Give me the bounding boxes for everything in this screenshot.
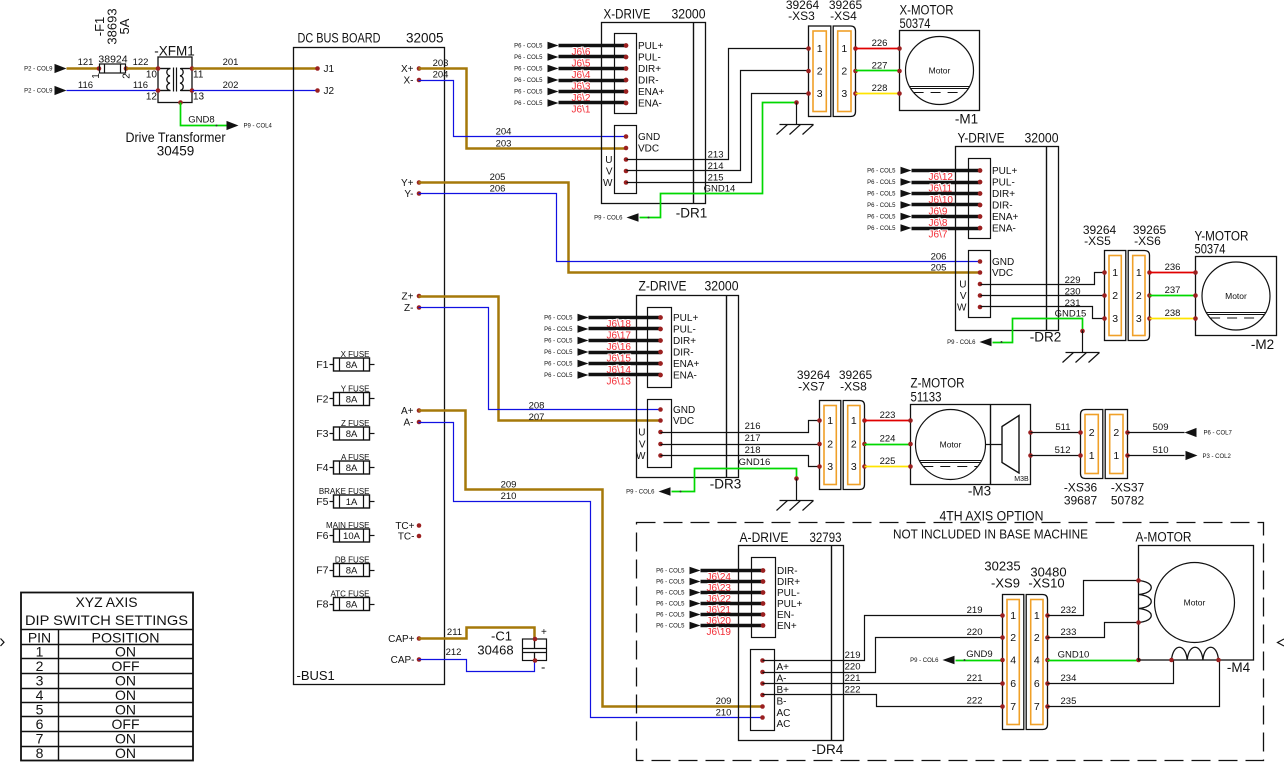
svg-text:7: 7 — [1034, 701, 1040, 713]
wire 225 — [865, 456, 911, 467]
svg-text:TC+: TC+ — [395, 521, 414, 532]
terminal J1 — [315, 64, 334, 75]
input J6\3 (P6 - COL5) — [514, 76, 628, 93]
wire 220 — [763, 627, 1003, 673]
input J6\21 (P6 - COL5) — [656, 600, 765, 617]
svg-text:-M2: -M2 — [1251, 337, 1274, 352]
terminal TC+ — [395, 521, 421, 532]
connector -XS37 — [1105, 410, 1130, 479]
wire 209 (A+ to A-drive AC) — [419, 411, 763, 707]
input J6\11 (P6 - COL5) — [867, 178, 982, 195]
svg-text:P6 - COL5: P6 - COL5 — [544, 316, 573, 322]
wire 228 — [856, 83, 900, 94]
svg-text:P6 - COL5: P6 - COL5 — [544, 350, 573, 356]
svg-text:GND: GND — [992, 257, 1014, 268]
X-DRIVE 32000 box (-DR1) — [602, 7, 708, 221]
svg-text:F3: F3 — [316, 428, 328, 440]
svg-text:P6 - COL5: P6 - COL5 — [544, 373, 573, 379]
svg-text:206: 206 — [931, 251, 947, 262]
svg-text:P2 - COL9: P2 - COL9 — [24, 67, 53, 73]
svg-text:P2 - COL9: P2 - COL9 — [24, 89, 53, 95]
svg-text:ENA+: ENA+ — [673, 359, 700, 370]
svg-text:P6 - COL5: P6 - COL5 — [544, 339, 573, 345]
wire 122 — [127, 57, 159, 69]
svg-text:P9 - COL4: P9 - COL4 — [244, 124, 273, 130]
wire 238 — [1150, 308, 1196, 319]
svg-text:P6 - COL5: P6 - COL5 — [656, 624, 685, 630]
svg-text:GND10: GND10 — [1058, 649, 1090, 660]
svg-text:8A: 8A — [346, 599, 358, 610]
connector labels -XS36 39687 / -XS37 50782 — [1064, 481, 1145, 508]
svg-text:205: 205 — [931, 262, 947, 273]
svg-text:208: 208 — [529, 400, 545, 411]
svg-text:116: 116 — [78, 80, 93, 91]
input J6\12 (P6 - COL5) — [867, 167, 982, 184]
svg-text:DIR-: DIR- — [638, 76, 659, 87]
wire 231 — [981, 298, 1105, 319]
svg-text:202: 202 — [223, 80, 239, 91]
svg-text:226: 226 — [872, 38, 888, 49]
svg-text:510: 510 — [1153, 445, 1169, 456]
svg-text:X+: X+ — [401, 64, 414, 75]
svg-text:X-DRIVE: X-DRIVE — [604, 7, 651, 22]
svg-text:204: 204 — [433, 69, 449, 80]
svg-text:3: 3 — [1112, 313, 1118, 325]
wire 203 (X+ to X-drive VDC) — [419, 58, 627, 150]
svg-text:GND9: GND9 — [966, 649, 992, 660]
svg-text:-C1: -C1 — [491, 629, 512, 644]
X-MOTOR 50374 (-M1) — [897, 3, 979, 127]
svg-text:50374: 50374 — [900, 16, 931, 31]
svg-text:2: 2 — [1034, 632, 1040, 644]
svg-text:GND16: GND16 — [739, 457, 771, 468]
svg-text:238: 238 — [1165, 308, 1181, 319]
wire 216 — [661, 421, 820, 433]
input J6\4 (P6 - COL5) — [514, 65, 628, 82]
terminal X+ — [401, 64, 421, 75]
input J6\19 (P6 - COL5) — [656, 622, 765, 639]
svg-text:7: 7 — [1010, 701, 1016, 713]
svg-text:51133: 51133 — [911, 390, 942, 405]
svg-text:PUL-: PUL- — [777, 588, 800, 599]
svg-text:32000: 32000 — [705, 279, 739, 294]
wire 226 — [856, 38, 900, 49]
input J6\2 (P6 - COL5) — [514, 88, 628, 105]
svg-text:228: 228 — [872, 83, 888, 94]
svg-text:1: 1 — [827, 415, 833, 427]
capacitor -C1 30468 — [477, 627, 547, 675]
Z-DRIVE 32000 box (-DR3) — [637, 279, 742, 492]
svg-text:-XS37: -XS37 — [1111, 481, 1145, 495]
terminal A+ — [401, 406, 421, 417]
svg-text:3: 3 — [827, 461, 833, 473]
svg-text:-DR3: -DR3 — [710, 477, 742, 492]
svg-text:2: 2 — [122, 73, 133, 79]
svg-text:217: 217 — [745, 433, 761, 444]
input arrow P2 - COL9 (line 121) — [24, 64, 66, 73]
svg-text:A-: A- — [404, 418, 414, 429]
wire 512 — [1031, 445, 1081, 456]
wire GND16 to P9 - COL6 and ground — [626, 457, 796, 496]
svg-text:P6 - COL5: P6 - COL5 — [514, 90, 543, 96]
wire 227 — [856, 60, 900, 71]
svg-text:512: 512 — [1055, 445, 1071, 456]
svg-text:F2: F2 — [316, 394, 328, 406]
wire 214 — [627, 71, 809, 172]
input J6\16 (P6 - COL5) — [544, 337, 663, 354]
svg-text:204: 204 — [496, 126, 512, 137]
fuse F3 (Z FUSE 8A) — [316, 419, 374, 441]
svg-text:220: 220 — [967, 627, 983, 638]
svg-text:M3B: M3B — [1014, 476, 1029, 483]
wire 217 — [661, 433, 820, 445]
wire 206 (Y- to Y-drive GND) — [419, 183, 981, 262]
svg-text:224: 224 — [880, 433, 896, 444]
svg-text:PUL-: PUL- — [673, 325, 696, 336]
wire GND9 to P9 - COL6 — [910, 649, 1002, 664]
svg-text:GND: GND — [638, 132, 660, 143]
fuse F1 38924 5A — [91, 8, 133, 78]
terminal Z- — [404, 303, 421, 314]
wire 509 to P6 - COL7 — [1128, 422, 1233, 437]
svg-text:CAP-: CAP- — [391, 655, 415, 666]
A-drive signal connector (DIR/PUL/EN) — [752, 558, 803, 638]
svg-text:116: 116 — [133, 80, 148, 91]
terminal Y- — [404, 189, 421, 200]
fuse F1 (X FUSE 8A) — [316, 350, 374, 371]
svg-text:AC: AC — [777, 719, 791, 730]
svg-text:1: 1 — [841, 43, 847, 55]
svg-text:2: 2 — [841, 66, 847, 78]
fuse F6 (MAIN FUSE 10A) — [316, 521, 374, 543]
connector labels 39264 -XS3 / 39265 -XS4 — [786, 0, 863, 23]
connector labels 39264 -XS7 / 39265 -XS8 — [797, 368, 873, 394]
svg-text:2: 2 — [1136, 290, 1142, 302]
svg-text:121: 121 — [78, 57, 94, 68]
svg-text:DIR+: DIR+ — [992, 189, 1015, 200]
svg-text:P6 - COL5: P6 - COL5 — [867, 226, 896, 232]
svg-text:Motor: Motor — [929, 66, 951, 76]
svg-text:DIR+: DIR+ — [673, 336, 696, 347]
wire GND15 to P9 - COL6 and ground — [947, 308, 1086, 346]
input J6\13 (P6 - COL5) — [544, 371, 663, 388]
svg-text:223: 223 — [880, 410, 896, 421]
fuse F4 (A FUSE 8A) — [316, 453, 374, 475]
Z-drive signal connector (PUL/DIR/ENA) — [648, 308, 700, 388]
wire 229 — [981, 273, 1105, 286]
input J6\1 (P6 - COL5) — [514, 99, 628, 116]
terminal Y+ — [401, 178, 421, 189]
transformer -XFM1 (Drive Transformer 30459) — [126, 44, 226, 159]
svg-text:Motor: Motor — [1184, 598, 1206, 608]
svg-text:P6 - COL5: P6 - COL5 — [514, 44, 543, 50]
fuse F5 (BRAKE FUSE 1A) — [316, 487, 374, 509]
connector labels 39264 -XS5 / 39265 -XS6 — [1083, 223, 1167, 248]
svg-text:12: 12 — [146, 92, 158, 103]
svg-text:B-: B- — [777, 697, 787, 708]
svg-text:F4: F4 — [316, 462, 328, 474]
input J6\23 (P6 - COL5) — [656, 578, 765, 595]
svg-text:3: 3 — [817, 88, 823, 100]
svg-text:A+: A+ — [401, 406, 414, 417]
input J6\5 (P6 - COL5) — [514, 53, 628, 69]
svg-text:DIR-: DIR- — [673, 348, 694, 359]
svg-text:Z+: Z+ — [402, 292, 414, 303]
svg-text:-XS4: -XS4 — [830, 9, 857, 23]
input J6\20 (P6 - COL5) — [656, 611, 765, 628]
svg-text:236: 236 — [1165, 262, 1181, 273]
Z-MOTOR 51133 (-M3) with brake M3B — [908, 376, 1033, 499]
svg-text:235: 235 — [1061, 696, 1077, 707]
svg-text:NOT INCLUDED IN BASE MACHINE: NOT INCLUDED IN BASE MACHINE — [893, 527, 1088, 542]
svg-text:Motor: Motor — [1225, 291, 1247, 301]
wire 201 — [193, 57, 318, 69]
svg-text:-XS9: -XS9 — [991, 576, 1020, 591]
svg-text:F6: F6 — [316, 530, 328, 542]
svg-text:F8: F8 — [316, 599, 328, 611]
svg-text:237: 237 — [1165, 285, 1181, 296]
svg-text:PUL+: PUL+ — [673, 313, 698, 324]
svg-text:W: W — [603, 178, 613, 189]
svg-text:EN-: EN- — [777, 610, 794, 621]
svg-text:4: 4 — [1010, 655, 1016, 667]
input J6\18 (P6 - COL5) — [544, 314, 663, 331]
wire 212 (CAP- to capacitor) — [419, 647, 535, 672]
svg-text:1: 1 — [1112, 267, 1118, 279]
svg-text:+: + — [541, 627, 547, 638]
connector -XS5 — [1102, 251, 1126, 341]
svg-text:J1: J1 — [324, 64, 335, 75]
terminal X- — [404, 76, 422, 87]
svg-text:230: 230 — [1065, 286, 1081, 297]
svg-text:DIR-: DIR- — [992, 201, 1013, 212]
svg-text:3: 3 — [1136, 313, 1142, 325]
svg-text:ENA+: ENA+ — [992, 212, 1019, 223]
svg-text:216: 216 — [745, 421, 761, 432]
svg-text:P9 - COL6: P9 - COL6 — [626, 490, 655, 496]
svg-text:DC BUS BOARD: DC BUS BOARD — [298, 31, 381, 46]
svg-text:3: 3 — [841, 88, 847, 100]
XYZ AXIS DIP SWITCH SETTINGS table — [21, 593, 194, 762]
svg-text:11: 11 — [193, 70, 204, 81]
svg-text:1: 1 — [1136, 267, 1142, 279]
svg-text:J6\1: J6\1 — [572, 105, 591, 116]
svg-text:-M4: -M4 — [1227, 660, 1251, 675]
4TH AXIS OPTION dashed box — [637, 509, 1264, 761]
input J6\17 (P6 - COL5) — [544, 325, 663, 342]
svg-text:A-DRIVE: A-DRIVE — [740, 530, 789, 545]
wire 205 (Y+ to Y-drive VDC) — [419, 172, 981, 273]
fuse F8 (ATC FUSE 8A) — [316, 589, 374, 610]
svg-text:30468: 30468 — [477, 643, 513, 658]
svg-text:210: 210 — [501, 491, 517, 502]
svg-text:231: 231 — [1065, 298, 1081, 309]
Y-MOTOR 50374 (-M2) — [1193, 229, 1276, 353]
wire 116 — [67, 80, 159, 91]
svg-text:13: 13 — [193, 92, 205, 103]
svg-text:P6 - COL5: P6 - COL5 — [656, 602, 685, 608]
wire 510 to P3 - COL2 — [1128, 445, 1232, 460]
svg-text:8A: 8A — [346, 394, 358, 405]
input arrow P2 - COL9 (line 116) — [24, 86, 66, 95]
svg-text:V: V — [960, 291, 967, 302]
svg-text:219: 219 — [845, 650, 861, 661]
svg-text:P6 - COL5: P6 - COL5 — [867, 203, 896, 209]
connector -XS6 — [1128, 251, 1152, 341]
svg-text:A-MOTOR: A-MOTOR — [1136, 530, 1192, 545]
svg-text:1: 1 — [1010, 610, 1016, 622]
svg-text:TC-: TC- — [398, 532, 415, 543]
svg-text:ENA+: ENA+ — [638, 87, 665, 98]
wire 223 — [865, 410, 911, 421]
terminal J2 — [315, 86, 334, 97]
svg-text:225: 225 — [880, 456, 896, 467]
svg-text:-XS8: -XS8 — [840, 380, 867, 394]
svg-text:-XS3: -XS3 — [788, 9, 815, 23]
svg-text:210: 210 — [716, 707, 732, 718]
svg-text:XYZ AXIS: XYZ AXIS — [76, 594, 138, 610]
svg-text:8A: 8A — [346, 360, 358, 371]
svg-text:509: 509 — [1153, 422, 1169, 433]
svg-text:Z-: Z- — [404, 303, 413, 314]
Z-drive power connector (GND/VDC/U/V/W) — [636, 400, 695, 468]
svg-text:-XS10: -XS10 — [1028, 576, 1064, 591]
svg-text:J6\7: J6\7 — [929, 230, 948, 241]
svg-text:EN+: EN+ — [777, 621, 797, 632]
connector labels 30235 -XS9 / 30480 -XS10 — [984, 559, 1066, 591]
svg-text:A+: A+ — [777, 662, 790, 673]
svg-text:J6\19: J6\19 — [707, 627, 732, 638]
svg-text:511: 511 — [1055, 422, 1070, 433]
svg-text:P9 - COL6: P9 - COL6 — [910, 658, 939, 664]
input J6\7 (P6 - COL5) — [867, 224, 982, 241]
ground (Z axis) — [777, 476, 814, 510]
svg-text:32005: 32005 — [406, 31, 444, 46]
wire 218 — [661, 445, 820, 467]
svg-text:P9 - COL6: P9 - COL6 — [594, 216, 623, 222]
svg-text:2: 2 — [817, 66, 823, 78]
svg-text:DIR+: DIR+ — [777, 577, 800, 588]
svg-text:P6 - COL5: P6 - COL5 — [867, 169, 896, 175]
svg-text:F5: F5 — [316, 496, 328, 508]
svg-text:2: 2 — [827, 439, 833, 451]
connector -XS8 — [843, 401, 867, 490]
svg-text:221: 221 — [845, 673, 861, 684]
svg-text:1A: 1A — [346, 497, 358, 508]
svg-text:P6 - COL5: P6 - COL5 — [514, 78, 543, 84]
svg-text:PUL-: PUL- — [992, 178, 1015, 189]
svg-text:209: 209 — [501, 479, 517, 490]
ground (Y axis) — [1063, 329, 1100, 363]
svg-text:P6 - COL5: P6 - COL5 — [544, 327, 573, 333]
svg-text:209: 209 — [716, 696, 732, 707]
X-drive power connector (GND/VDC/U/V/W) — [603, 126, 660, 194]
svg-text:U: U — [605, 155, 612, 166]
wire 213 — [627, 49, 809, 161]
svg-text:214: 214 — [708, 161, 724, 172]
wire 234 — [1048, 661, 1174, 684]
svg-text:P6 - COL5: P6 - COL5 — [514, 55, 543, 61]
svg-text:ENA-: ENA- — [673, 371, 697, 382]
svg-text:V: V — [606, 167, 613, 178]
terminal A- — [404, 418, 422, 429]
svg-text:-DR1: -DR1 — [676, 206, 708, 221]
wire 121 — [67, 57, 100, 69]
wire 211 (CAP+ to capacitor) — [419, 627, 535, 639]
svg-text:6: 6 — [1010, 678, 1016, 690]
svg-text:AC: AC — [777, 708, 791, 719]
svg-text:1: 1 — [1113, 450, 1119, 462]
wire 204 (X- to X-drive GND) — [419, 69, 627, 137]
Y-drive power connector (GND/VDC/U/V/W) — [957, 251, 1014, 318]
svg-text:227: 227 — [872, 60, 888, 71]
connector -XS9 — [1000, 595, 1024, 730]
svg-text:1: 1 — [91, 73, 102, 79]
svg-text:-DR4: -DR4 — [812, 742, 844, 757]
svg-text:P6 - COL5: P6 - COL5 — [514, 67, 543, 73]
svg-text:Y+: Y+ — [401, 178, 414, 189]
svg-text:2: 2 — [851, 439, 857, 451]
svg-text:8A: 8A — [346, 463, 358, 474]
svg-text:6: 6 — [1034, 678, 1040, 690]
svg-text:ENA-: ENA- — [638, 99, 662, 110]
A-MOTOR (-M4) — [1136, 530, 1254, 676]
svg-text:211: 211 — [447, 627, 462, 638]
svg-text:DIP SWITCH SETTINGS: DIP SWITCH SETTINGS — [25, 612, 188, 628]
svg-text:W: W — [957, 303, 967, 314]
svg-text:50374: 50374 — [1195, 242, 1226, 257]
svg-text:-XS5: -XS5 — [1084, 234, 1111, 248]
connector -XS36 — [1078, 410, 1103, 479]
connector -XS4 — [833, 26, 858, 117]
svg-text:232: 232 — [1061, 605, 1077, 616]
terminal CAP- — [391, 655, 422, 666]
connector -XS10 — [1026, 595, 1050, 730]
svg-text:50782: 50782 — [1111, 494, 1145, 508]
svg-text:-XS36: -XS36 — [1064, 481, 1098, 495]
svg-text:206: 206 — [490, 183, 506, 194]
Y-drive signal connector (PUL/DIR/ENA) — [969, 159, 1019, 239]
input J6\9 (P6 - COL5) — [867, 201, 982, 218]
wire 219 — [763, 605, 1003, 661]
input J6\15 (P6 - COL5) — [544, 348, 663, 365]
edge arrow right — [1278, 639, 1284, 646]
svg-text:Y-: Y- — [404, 189, 413, 200]
wire 221 — [763, 673, 1003, 684]
svg-text:GND15: GND15 — [1055, 308, 1087, 319]
svg-text:215: 215 — [708, 172, 724, 183]
fuse F2 (Y FUSE 8A) — [316, 384, 374, 405]
svg-text:203: 203 — [496, 138, 512, 149]
DC BUS BOARD 32005 (-BUS1) — [294, 31, 445, 685]
svg-text:234: 234 — [1061, 673, 1077, 684]
wire 236 — [1150, 262, 1196, 273]
svg-text:222: 222 — [967, 695, 983, 706]
ground (X axis) — [777, 100, 814, 134]
svg-text:-XS7: -XS7 — [798, 380, 825, 394]
svg-text:P6 - COL5: P6 - COL5 — [867, 192, 896, 198]
svg-text:221: 221 — [967, 673, 983, 684]
wire 233 — [1048, 623, 1139, 638]
svg-text:Z-DRIVE: Z-DRIVE — [639, 279, 687, 294]
connector -XS3 — [806, 26, 831, 117]
input J6\6 (P6 - COL5) — [514, 42, 628, 59]
svg-text:P6 - COL7: P6 - COL7 — [1204, 431, 1233, 437]
svg-text:GND: GND — [673, 405, 695, 416]
svg-text:229: 229 — [1065, 275, 1081, 286]
wire GND14 to P9 - COL6 and ground — [594, 103, 796, 222]
wire 208 (Z- to Z-drive GND) — [419, 308, 661, 412]
